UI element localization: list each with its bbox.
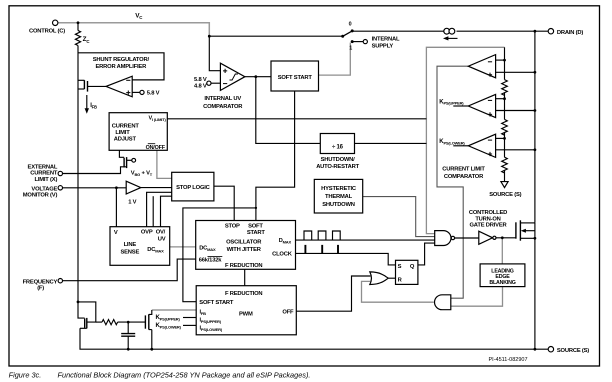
svg-text:SHUTDOWN: SHUTDOWN xyxy=(322,202,355,208)
node C1 bus junction xyxy=(127,348,130,351)
svg-text:V: V xyxy=(114,230,118,236)
svg-text:4.8 V: 4.8 V xyxy=(194,84,207,90)
U7 minus mark xyxy=(488,139,492,141)
shunt MOSFET Q1 gate bar xyxy=(87,81,89,92)
node drain junction xyxy=(534,30,537,33)
terminal INTERNAL SUPPLY xyxy=(363,40,367,44)
wire X input to VBG transistor source xyxy=(62,167,126,174)
box LEADING EDGE BLANKING xyxy=(480,264,525,287)
buffer U10 gate driver triangle xyxy=(479,231,493,244)
svg-text:UV: UV xyxy=(158,237,166,243)
wire drain sense vertical xyxy=(534,31,536,223)
wire OR gate output to latch R input xyxy=(389,277,396,279)
wire IFB sense (gray) to PWM Ifb input xyxy=(152,309,196,311)
svg-text:VI (LIMIT): VI (LIMIT) xyxy=(149,116,167,122)
box LINE SENSE xyxy=(110,227,170,266)
wire AND gate output to OR gate input (gray) xyxy=(362,281,434,302)
U6 minus mark xyxy=(488,99,492,101)
power MOSFET Q5 gate bar xyxy=(515,222,517,238)
wire Q4 source down xyxy=(149,330,152,350)
VBG transistor Q2 drain stub xyxy=(127,159,132,161)
node switch contact 1 xyxy=(351,40,354,43)
svg-text:CONTROL (C): CONTROL (C) xyxy=(29,29,65,35)
terminal 5.8V reference xyxy=(140,90,144,94)
wire switch feed from Vc junction xyxy=(209,35,342,37)
wire divide-by-16 output to NAND vertical xyxy=(355,142,427,144)
terminal VOLTAGE MONITOR (V) xyxy=(58,186,62,190)
node switch feed junction xyxy=(208,35,211,38)
svg-text:LIMIT: LIMIT xyxy=(115,130,130,136)
wire comparator 3 plus to drain sense xyxy=(496,149,535,151)
capacitor C1 bottom stub xyxy=(127,336,129,349)
U2 plus mark xyxy=(223,69,227,73)
IFB current arrow xyxy=(86,95,88,110)
svg-text:IPS(LOWER): IPS(LOWER) xyxy=(200,326,223,332)
NAND gate U9 xyxy=(435,231,451,246)
wire VI(LIMIT) from CURRENT LIMIT ADJUST xyxy=(167,118,426,120)
wire chain segment 3 xyxy=(504,132,506,157)
wire oscillator F REDUCTION to PWM F REDUCTION xyxy=(244,269,246,285)
svg-text:OVP: OVP xyxy=(141,230,153,236)
wire R4 to Q4 gate xyxy=(118,321,146,323)
waveform DMAX pulses xyxy=(304,231,340,240)
svg-text:5.8 V: 5.8 V xyxy=(147,91,160,97)
svg-text:ADJUST: ADJUST xyxy=(114,137,137,143)
overline on ON xyxy=(148,143,155,145)
svg-text:KPS(LOWER): KPS(LOWER) xyxy=(156,323,182,329)
terminal SOURCE (S) xyxy=(548,347,553,352)
wire Vc down to UV comparator plus input xyxy=(209,36,220,70)
node chain node 2 xyxy=(503,97,506,100)
svg-text:MONITOR (V): MONITOR (V) xyxy=(23,193,58,199)
svg-text:AUTO-RESTART: AUTO-RESTART xyxy=(316,164,359,170)
wire power MOSFET source down to source bus xyxy=(534,223,536,349)
svg-text:IPS(UPPER): IPS(UPPER) xyxy=(200,318,222,324)
op-amp U3 1V buffer triangle xyxy=(126,181,141,194)
wire LEADING EDGE BLANKING top to gate node (gray) xyxy=(501,238,503,264)
svg-text:SHUTDOWN/: SHUTDOWN/ xyxy=(321,157,356,163)
resistor R4 xyxy=(102,320,118,325)
wire UV comparator output down to divide-by-16 input xyxy=(256,77,320,144)
svg-text:VOLTAGE: VOLTAGE xyxy=(31,186,57,192)
OR gate U8 xyxy=(370,272,389,285)
node gate drive LEB tap xyxy=(501,236,504,239)
wire comparator 3 minus to chain node xyxy=(496,137,505,139)
svg-text:OSCILLATOR: OSCILLATOR xyxy=(226,240,262,246)
shunt MOSFET Q1 drain bend xyxy=(78,79,84,81)
node comparator 2 plus tap xyxy=(534,109,537,112)
VBG transistor Q2 gate bar xyxy=(123,158,125,168)
wire chain segment 2 xyxy=(504,92,506,119)
svg-text:OV/: OV/ xyxy=(156,230,166,236)
terminal CONTROL (C) xyxy=(53,20,58,25)
svg-text:SHUNT REGULATOR/: SHUNT REGULATOR/ xyxy=(93,57,150,63)
resistor chain R2 xyxy=(502,119,508,135)
svg-text:÷ 16: ÷ 16 xyxy=(332,145,344,151)
buffer U10 output bubble xyxy=(493,236,496,239)
svg-text:FREQUENCY: FREQUENCY xyxy=(23,279,58,285)
svg-text:SENSE: SENSE xyxy=(120,249,139,255)
waveform CLOCK spikes xyxy=(305,245,338,253)
svg-text:OFF: OFF xyxy=(282,309,294,315)
U5 minus mark xyxy=(488,61,492,63)
wire UV comparator output to SOFT START xyxy=(245,76,271,78)
svg-text:ERROR AMPLIFIER: ERROR AMPLIFIER xyxy=(96,64,148,70)
wire driver buffer output to power MOSFET gate xyxy=(496,237,516,239)
box divide by 16 SHUTDOWN/AUTO-RESTART xyxy=(320,134,354,154)
wire SOFT START box bottom to oscillator SOFT START input xyxy=(256,91,295,221)
node chain node 1 xyxy=(503,59,506,62)
wire V input to 1V buffer xyxy=(62,187,126,189)
wire LEADING EDGE BLANKING bottom to AND gate input (gray) xyxy=(451,287,503,307)
wire NAND output to driver buffer xyxy=(455,237,479,239)
svg-text:CURRENT: CURRENT xyxy=(112,124,140,130)
VBG transistor Q2 gate lead xyxy=(119,150,124,157)
wire current limit comparator output to AND gate input xyxy=(437,66,468,298)
svg-text:SOFT START: SOFT START xyxy=(199,300,234,306)
svg-text:66k/132k: 66k/132k xyxy=(199,257,223,263)
wire V sense down to LINE SENSE xyxy=(115,188,117,227)
wire CLOCK output to latch S input xyxy=(296,253,396,265)
svg-text:STOP LOGIC: STOP LOGIC xyxy=(176,185,211,191)
svg-text:THERMAL: THERMAL xyxy=(325,194,353,200)
wire source bus xyxy=(80,328,548,349)
terminal DRAIN (D) xyxy=(548,29,553,34)
wire ON/OFF from CURRENT LIMIT ADJUST to STOP LOGIC (gray) xyxy=(157,150,172,178)
wire IPS(UPPER) stub to PWM xyxy=(183,317,196,319)
wire OVP up to STOP LOGIC xyxy=(147,192,172,226)
svg-text:SOFT: SOFT xyxy=(248,224,263,230)
wire OV up to STOP LOGIC xyxy=(152,196,154,227)
svg-text:F REDUCTION: F REDUCTION xyxy=(225,263,262,269)
svg-text:CURRENT: CURRENT xyxy=(30,171,58,177)
svg-text:1: 1 xyxy=(349,45,352,51)
svg-text:IFB: IFB xyxy=(200,310,207,316)
current source arrow xyxy=(447,37,458,39)
svg-text:INTERNAL: INTERNAL xyxy=(372,36,400,42)
svg-text:START: START xyxy=(247,230,266,236)
svg-text:BLANKING: BLANKING xyxy=(489,280,515,286)
svg-text:Figure 3c.: Figure 3c. xyxy=(9,370,42,379)
svg-text:CURRENT LIMIT: CURRENT LIMIT xyxy=(442,167,485,173)
overline on 132k xyxy=(208,256,223,258)
wire STOP LOGIC output to oscillator STOP input xyxy=(214,186,234,220)
node R4/C1 junction xyxy=(127,321,130,324)
comparator U6 KPS(UPPER) xyxy=(468,94,495,117)
box PWM xyxy=(196,286,296,335)
transistor Q4 channel bar xyxy=(148,314,150,329)
svg-text:Q: Q xyxy=(410,264,415,270)
node source bus junction right xyxy=(534,348,537,351)
svg-text:EXTERNAL: EXTERNAL xyxy=(28,165,58,171)
svg-text:SUPPLY: SUPPLY xyxy=(372,43,394,49)
svg-text:SOFT START: SOFT START xyxy=(278,75,313,81)
wire gray loop from resistor chain top down to NAND input 1 xyxy=(426,47,504,233)
U7 plus mark xyxy=(488,152,492,156)
wire Q3 drain to resistor R4 xyxy=(96,321,102,323)
svg-text:TURN-ON: TURN-ON xyxy=(475,216,500,222)
box STOP LOGIC xyxy=(172,172,214,201)
wire IPS(LOWER) stub to PWM xyxy=(183,324,196,326)
terminal FREQUENCY (F) xyxy=(58,279,62,283)
wire switch contact 1 to SOFT START output (gray) xyxy=(319,43,351,76)
wire Q4 drain up xyxy=(149,310,152,316)
KPS(LOWER) input stub xyxy=(453,145,468,147)
shunt MOSFET Q1 source bend xyxy=(79,88,85,90)
KPS(UPPER) input stub xyxy=(453,105,468,107)
ground arrow SOURCE (S) of resistor chain xyxy=(501,182,508,188)
wire mosfet Q3 source bend xyxy=(80,327,87,329)
hysteresis symbol inside UV comparator xyxy=(230,74,238,80)
box OSCILLATOR WITH JITTER xyxy=(196,221,296,270)
op-amp U1 minus mark xyxy=(126,79,130,81)
box SR latch U4 xyxy=(396,260,418,284)
terminal 5.8V/4.8V threshold xyxy=(207,81,211,85)
shunt MOSFET Q1 channel bar xyxy=(83,80,85,89)
svg-text:INTERNAL UV: INTERNAL UV xyxy=(204,96,241,102)
resistor Zc xyxy=(75,31,80,46)
terminal EXTERNAL CURRENT LIMIT (X) xyxy=(58,171,62,175)
svg-text:PI-4511-082907: PI-4511-082907 xyxy=(489,357,528,363)
node comparator 1 plus tap xyxy=(534,71,537,74)
svg-text:PWM: PWM xyxy=(239,312,253,318)
terminal VBG+VT xyxy=(132,158,136,162)
U2 minus mark xyxy=(223,83,227,85)
op-amp U1 plus mark xyxy=(126,91,130,95)
wire power MOSFET body arrow line xyxy=(525,230,535,232)
NAND output bubble xyxy=(451,236,454,239)
capacitor C1 top stub xyxy=(127,322,129,333)
comparator U7 KPS(LOWER) xyxy=(468,134,495,157)
wire resistor chain top segment xyxy=(504,47,506,79)
svg-text:KPS(LOWER): KPS(LOWER) xyxy=(439,139,465,145)
power MOSFET Q5 channel bar xyxy=(519,220,521,240)
wire Vc net (gray) from CONTROL to internal UV comparator + input xyxy=(58,23,209,36)
wire PWM OFF output to OR gate input xyxy=(296,276,370,311)
wire UV up to STOP LOGIC xyxy=(161,196,172,227)
box SHUNT REGULATOR / ERROR AMPLIFIER (open) xyxy=(78,53,164,80)
svg-text:Functional Block Diagram (TOP2: Functional Block Diagram (TOP254-258 YN … xyxy=(58,370,311,379)
svg-text:GATE DRIVER: GATE DRIVER xyxy=(470,223,508,229)
svg-text:0: 0 xyxy=(349,22,352,28)
svg-text:LINE: LINE xyxy=(124,242,137,248)
node Vc junction xyxy=(77,21,80,24)
node Q4 source bus junction xyxy=(150,348,153,351)
wire soft start tap to PWM SOFT START input xyxy=(183,208,256,302)
svg-text:SOURCE (S): SOURCE (S) xyxy=(489,192,521,198)
comparator U5 (top current limit) xyxy=(468,55,495,78)
svg-text:CLOCK: CLOCK xyxy=(272,252,293,258)
svg-text:1 V: 1 V xyxy=(128,200,136,206)
svg-text:5.8 V: 5.8 V xyxy=(194,77,207,83)
node Q5 source tie xyxy=(534,237,537,240)
AND gate U11 (left pointing) xyxy=(435,295,451,310)
transistor Q3 gate bar xyxy=(84,318,86,328)
current source I1 circle b xyxy=(449,28,455,34)
box SOFT START xyxy=(271,61,319,91)
wire error amp output to Q1 gate xyxy=(88,85,107,87)
node chain node 3 xyxy=(503,137,506,140)
svg-text:LIMIT (X): LIMIT (X) xyxy=(35,177,58,183)
node switch arm pivot xyxy=(341,35,344,38)
op-amp U2 internal UV comparator triangle xyxy=(220,63,245,90)
op-amp U1 plus input stub xyxy=(132,91,140,93)
svg-text:DCMAX: DCMAX xyxy=(147,247,164,253)
wire latch Q output to NAND input xyxy=(418,243,435,265)
svg-text:SOURCE (S): SOURCE (S) xyxy=(557,348,589,354)
svg-text:KPS(UPPER): KPS(UPPER) xyxy=(156,315,181,321)
wire chain to source arrow xyxy=(504,170,506,182)
resistor chain R1 xyxy=(502,80,508,96)
transistor Q4 gate bar xyxy=(144,315,146,328)
svg-text:CONTROLLED: CONTROLLED xyxy=(469,210,507,216)
svg-text:KPS(UPPER): KPS(UPPER) xyxy=(439,99,464,105)
wire DCMAX from LINE SENSE to oscillator (gray) xyxy=(170,246,196,248)
current source I1 circle a xyxy=(444,28,450,34)
power MOSFET Q5 source arrow xyxy=(521,229,526,233)
wire switch contact 0 to current source xyxy=(352,30,444,32)
transistor Q3 channel bar xyxy=(86,318,88,329)
wire 1V buffer output to STOP LOGIC xyxy=(141,187,172,189)
node switch contact 0 xyxy=(351,29,354,32)
wire power MOSFET drain bend xyxy=(520,222,535,224)
wire comparator 1 plus to drain sense xyxy=(496,71,535,73)
wire mosfet Q3 drain feed xyxy=(78,302,96,322)
VBG transistor Q2 channel bar xyxy=(126,157,128,168)
svg-text:ON/OFF: ON/OFF xyxy=(146,145,166,151)
wire HYSTERETIC THERMAL SHUTDOWN output to NAND input xyxy=(363,197,435,237)
node left rail lower junction xyxy=(77,301,80,304)
svg-text:WITH JITTER: WITH JITTER xyxy=(227,247,262,253)
wire power MOSFET source bend xyxy=(520,237,535,239)
node comparator 3 plus tap xyxy=(534,148,537,151)
node UV comparator output junction xyxy=(254,75,257,78)
box CURRENT LIMIT ADJUST xyxy=(109,113,167,151)
svg-text:DCMAX: DCMAX xyxy=(199,245,216,251)
switch arm SW1 xyxy=(343,31,353,36)
svg-text:F REDUCTION: F REDUCTION xyxy=(225,291,262,297)
wire comparator 2 plus to drain sense xyxy=(496,110,535,112)
wire comparator 2 minus to chain node xyxy=(496,98,505,100)
node soft start tap junction xyxy=(255,207,257,209)
U6 plus mark xyxy=(488,112,492,116)
svg-text:(F): (F) xyxy=(37,286,44,292)
wire FREQUENCY to oscillator 66k input xyxy=(62,259,195,281)
node V monitor junction xyxy=(115,186,118,189)
svg-text:DMAX: DMAX xyxy=(279,238,292,244)
svg-text:COMPARATOR: COMPARATOR xyxy=(444,174,484,180)
op-amp U1 shunt error amplifier triangle xyxy=(106,76,132,97)
svg-text:HYSTERETIC: HYSTERETIC xyxy=(321,186,357,192)
svg-text:COMPARATOR: COMPARATOR xyxy=(203,104,243,110)
U5 plus mark xyxy=(488,73,492,77)
wire Zc top stub xyxy=(77,23,79,31)
svg-text:DRAIN (D): DRAIN (D) xyxy=(557,30,583,36)
wire comparator 1 minus to chain node xyxy=(496,59,505,61)
capacitor C1 plates xyxy=(121,334,135,337)
svg-text:STOP: STOP xyxy=(225,224,240,230)
wire drain pin stub xyxy=(457,30,549,32)
terminal 5.8V/4.8V stub xyxy=(211,82,220,84)
switch stub to INTERNAL SUPPLY terminal xyxy=(352,41,363,43)
box HYSTERETIC THERMAL SHUTDOWN xyxy=(314,179,362,213)
svg-text:IFB: IFB xyxy=(90,103,97,110)
wire DMAX output to NAND input xyxy=(296,239,435,241)
svg-text:VBG + VT: VBG + VT xyxy=(131,171,153,177)
wire left control rail down to lower mosfet circuit xyxy=(78,46,85,319)
resistor chain R3 xyxy=(502,157,508,173)
svg-text:S: S xyxy=(398,264,402,270)
